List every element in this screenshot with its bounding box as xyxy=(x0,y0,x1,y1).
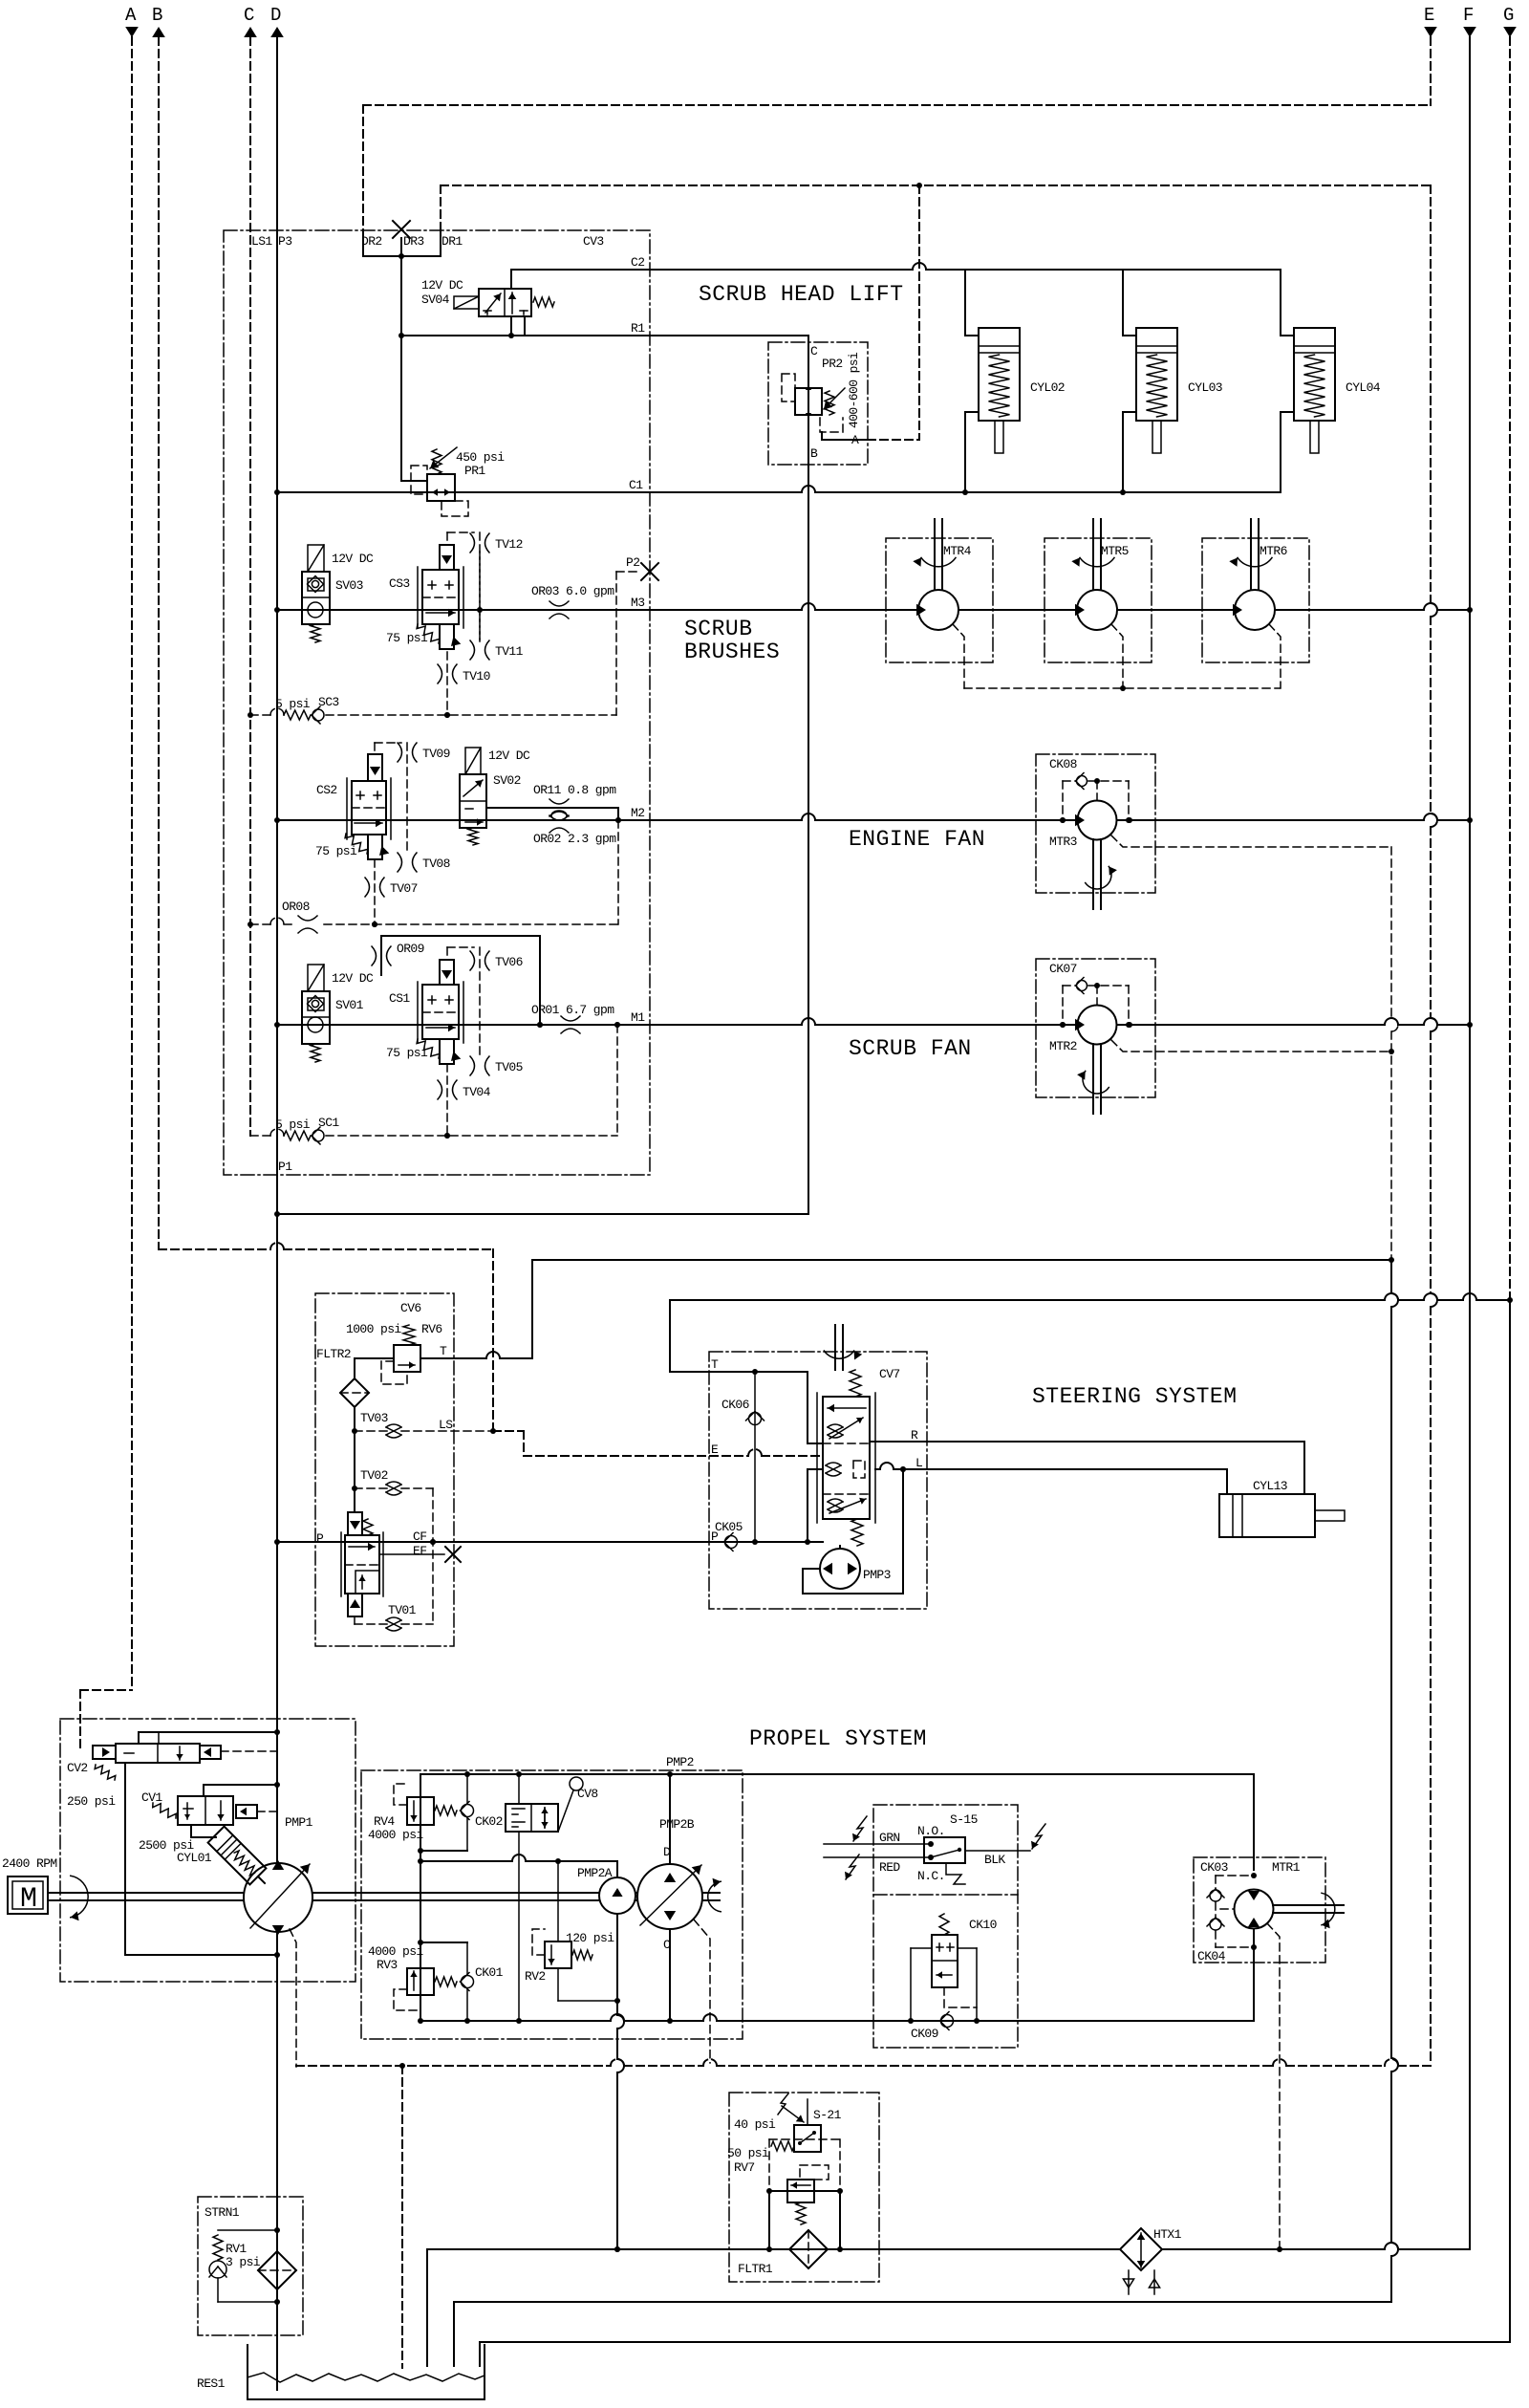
wire steering P riser xyxy=(808,1469,823,1542)
wire FLTR2 feed xyxy=(355,1358,394,1378)
check CK02 xyxy=(461,1774,503,1851)
pump PMP3 xyxy=(803,1466,906,1594)
svg-text:MTR6: MTR6 xyxy=(1260,544,1287,558)
svg-text:40 psi: 40 psi xyxy=(734,2117,776,2132)
label CK03 xyxy=(1200,1860,1228,1875)
svg-text:GRN: GRN xyxy=(879,1831,900,1845)
svg-text:TV12: TV12 xyxy=(495,537,523,552)
label 12V DC (SV04) xyxy=(421,278,463,293)
node G (trunk line G) xyxy=(1503,5,1517,2342)
label RED xyxy=(879,1860,900,1875)
label CV8 xyxy=(577,1787,598,1801)
label 400-600 psi xyxy=(847,352,861,428)
label RV7 xyxy=(734,2160,755,2175)
svg-text:CYL03: CYL03 xyxy=(1188,380,1222,395)
wire SV04 to R1 (right) xyxy=(524,316,526,336)
svg-text:C2: C2 xyxy=(631,255,644,270)
svg-text:OR02 2.3 gpm: OR02 2.3 gpm xyxy=(533,832,616,846)
svg-text:CV8: CV8 xyxy=(577,1787,598,1801)
svg-text:M: M xyxy=(20,1883,36,1916)
wire M3 bus xyxy=(277,596,1470,613)
svg-text:CV3: CV3 xyxy=(583,234,604,249)
label SCRUB FAN xyxy=(849,1036,972,1061)
svg-text:TV03: TV03 xyxy=(360,1411,388,1425)
motor MTR2 (scrub fan) xyxy=(1036,959,1391,1114)
label PMP3 xyxy=(863,1568,891,1582)
svg-text:DR2: DR2 xyxy=(361,234,382,249)
label CS2 xyxy=(316,783,337,797)
svg-text:CK05: CK05 xyxy=(715,1520,743,1534)
wire CS1 pilot dashed box xyxy=(447,947,480,1056)
cylinder CYL04 xyxy=(1281,270,1381,492)
svg-text:RED: RED xyxy=(879,1860,900,1875)
svg-text:OR03 6.0 gpm: OR03 6.0 gpm xyxy=(531,584,614,598)
wire SV04 to R1 (left) xyxy=(508,316,514,338)
valve RV4 xyxy=(394,1784,457,1825)
strainer STRN1 xyxy=(258,2251,296,2289)
test port TV06 xyxy=(470,951,523,970)
label PMP2 xyxy=(666,1755,694,1769)
svg-text:75 psi: 75 psi xyxy=(315,844,357,858)
svg-text:EF: EF xyxy=(413,1544,426,1558)
label 12V DC (SV02) xyxy=(488,748,530,763)
label CS1 xyxy=(389,991,410,1006)
label 12V DC (SV01) xyxy=(332,971,374,986)
orifice OR11 xyxy=(533,783,616,816)
svg-text:N.C.: N.C. xyxy=(917,1869,945,1883)
svg-text:OR09: OR09 xyxy=(397,942,424,956)
svg-text:SV03: SV03 xyxy=(335,578,363,593)
test valve TV01 needle xyxy=(355,1617,433,1631)
svg-text:M3: M3 xyxy=(631,596,644,610)
steering shaft xyxy=(824,1325,862,1370)
wire PMP2A suction xyxy=(614,1914,624,2252)
label B (PR2) xyxy=(810,446,818,461)
filter FLTR1 xyxy=(789,2230,828,2268)
solenoid SV03 xyxy=(302,545,330,642)
svg-text:12V DC: 12V DC xyxy=(421,278,463,293)
plug P2 (X) xyxy=(626,555,658,580)
svg-text:LS: LS xyxy=(439,1418,453,1432)
test port TV07 xyxy=(365,878,418,897)
wire S-21 pilot dashed xyxy=(769,2139,840,2191)
label LS1 xyxy=(251,234,272,249)
svg-text:FLTR1: FLTR1 xyxy=(738,2262,773,2276)
svg-text:2400 RPM: 2400 RPM xyxy=(2,1856,57,1871)
test port TV10 xyxy=(438,664,490,683)
svg-text:12V DC: 12V DC xyxy=(332,971,374,986)
svg-text:50 psi: 50 psi xyxy=(727,2146,769,2160)
label CK10 xyxy=(969,1918,997,1932)
box S-21/FLTR1 (dash-dot) xyxy=(729,2093,879,2282)
svg-text:SV02: SV02 xyxy=(493,773,521,788)
svg-text:DR3: DR3 xyxy=(403,234,424,249)
motor MTR4 xyxy=(886,519,993,688)
svg-text:400-600 psi: 400-600 psi xyxy=(847,352,861,428)
svg-text:MTR4: MTR4 xyxy=(943,544,972,558)
wire L line xyxy=(875,1456,1227,1494)
label SCRUB HEAD LIFT xyxy=(699,282,904,307)
svg-text:RV4: RV4 xyxy=(374,1814,395,1829)
label CV2 xyxy=(67,1761,88,1775)
svg-text:P2: P2 xyxy=(626,555,639,570)
wire M1 bus xyxy=(277,1010,1470,1028)
air arrows HTX1 xyxy=(1123,2270,1159,2294)
svg-text:12V DC: 12V DC xyxy=(332,552,374,566)
valve CV8 xyxy=(506,1777,583,1832)
label SV04 xyxy=(421,293,450,307)
steering unit CV7 xyxy=(817,1370,875,1546)
label PR1 xyxy=(464,464,485,478)
label CK04 xyxy=(1197,1949,1226,1963)
label STRN1 xyxy=(205,2205,240,2220)
label CV7 xyxy=(879,1367,900,1381)
svg-text:HTX1: HTX1 xyxy=(1153,2227,1182,2242)
wire MTR1 case drain xyxy=(1267,1923,1280,2249)
label PROPEL SYSTEM xyxy=(749,1726,927,1751)
svg-text:TV06: TV06 xyxy=(495,955,523,969)
label MTR1 xyxy=(1272,1860,1301,1875)
svg-text:E: E xyxy=(711,1443,719,1457)
wire M2 bus xyxy=(277,806,1470,823)
switch S-15 xyxy=(824,1816,1045,1884)
label E (steering) xyxy=(711,1443,719,1457)
check CK01 xyxy=(420,1942,504,2021)
svg-text:BRUSHES: BRUSHES xyxy=(684,640,780,664)
check CK06 xyxy=(721,1372,764,1542)
test port OR09 xyxy=(372,942,424,965)
label T (CV6) xyxy=(440,1344,447,1358)
box MTR1 (dash-dot) xyxy=(1194,1857,1325,1963)
svg-text:RV1: RV1 xyxy=(226,2242,247,2256)
switch S-21 xyxy=(778,2093,821,2152)
valve CK10 (pilot check) xyxy=(932,1914,958,1987)
label 4000 psi (RV4) xyxy=(368,1828,423,1842)
wire RV7 link xyxy=(766,2188,843,2194)
wire P line xyxy=(277,1539,823,1545)
box CV6 (dash-dot) xyxy=(315,1293,454,1646)
wire PR2 A port xyxy=(822,432,868,440)
label OR08 xyxy=(282,900,310,914)
svg-text:FLTR2: FLTR2 xyxy=(316,1347,351,1361)
label 50 psi xyxy=(727,2146,769,2160)
wire C2 bus xyxy=(511,255,1281,270)
wire CS1 feed box xyxy=(381,936,543,1028)
label SV03 xyxy=(335,578,363,593)
valve PR2 xyxy=(782,374,845,432)
wire steering T header xyxy=(532,1257,1394,1358)
label CV6 xyxy=(400,1301,421,1315)
label PMP1 xyxy=(285,1815,313,1830)
node E (trunk line E) xyxy=(1424,5,1437,2063)
svg-text:450 psi: 450 psi xyxy=(456,450,505,465)
svg-text:SV01: SV01 xyxy=(335,998,364,1012)
test valve TV02 xyxy=(360,1468,401,1495)
svg-text:R: R xyxy=(911,1428,918,1443)
svg-text:TV07: TV07 xyxy=(390,881,418,896)
label S-21 xyxy=(813,2108,842,2122)
label 12V DC (SV03) xyxy=(332,552,374,566)
svg-text:RV6: RV6 xyxy=(421,1322,442,1336)
svg-text:P1: P1 xyxy=(278,1160,292,1174)
wire CS3 pilot dashed box xyxy=(447,532,480,641)
wire CS2 pilot dashed box xyxy=(375,743,407,854)
box STRN1 (dash-dot) xyxy=(198,2197,303,2335)
svg-text:CYL13: CYL13 xyxy=(1253,1479,1287,1493)
wire CS1 drain to SC1 xyxy=(444,1064,450,1139)
svg-text:4000 psi: 4000 psi xyxy=(368,1828,423,1842)
svg-text:R1: R1 xyxy=(631,321,645,336)
wire SV02 branch OR11 xyxy=(486,808,621,823)
label C (PR2) xyxy=(810,344,818,358)
motor M (electric) xyxy=(2,1856,57,1916)
label T (steering) xyxy=(711,1357,719,1372)
svg-text:B: B xyxy=(152,5,162,26)
label PR2 xyxy=(822,357,843,371)
label DR1 xyxy=(441,234,463,249)
motor MTR3 (engine fan) xyxy=(1036,754,1391,909)
valve CS2 xyxy=(345,754,391,859)
svg-text:SC3: SC3 xyxy=(318,695,339,709)
svg-text:CYL02: CYL02 xyxy=(1030,380,1065,395)
label FLTR1 xyxy=(738,2262,773,2276)
svg-text:RV3: RV3 xyxy=(377,1958,398,1972)
valve CK10 body detail xyxy=(908,1943,980,2024)
svg-text:SCRUB HEAD LIFT: SCRUB HEAD LIFT xyxy=(699,282,904,307)
svg-text:N.O.: N.O. xyxy=(917,1824,945,1838)
svg-text:RV7: RV7 xyxy=(734,2160,755,2175)
wire CS3 drain to SC3 xyxy=(444,652,450,718)
svg-text:OR01 6.7 gpm: OR01 6.7 gpm xyxy=(531,1003,614,1017)
svg-text:PROPEL SYSTEM: PROPEL SYSTEM xyxy=(749,1726,927,1751)
box S-15/CK10 (dash-dot) xyxy=(873,1805,1018,2048)
svg-text:12V DC: 12V DC xyxy=(488,748,530,763)
svg-text:C1: C1 xyxy=(629,478,643,492)
valve CV1 xyxy=(153,1785,277,1825)
wire case drain bus (dashed) xyxy=(296,2059,1431,2069)
label RV2 xyxy=(525,1969,546,1984)
svg-text:E: E xyxy=(1424,5,1434,26)
check (inlet) TV01 top xyxy=(348,1512,362,1535)
label S-15 xyxy=(950,1812,978,1827)
orifice OR03 xyxy=(531,584,614,618)
wire propel return bus xyxy=(1018,2020,1254,2022)
wire CV2 return xyxy=(125,1763,277,1955)
svg-text:CYL04: CYL04 xyxy=(1346,380,1381,395)
svg-text:PR2: PR2 xyxy=(822,357,843,371)
label CS3 xyxy=(389,576,410,591)
label SV01 xyxy=(335,998,364,1012)
wire PMP2B bottom xyxy=(669,1929,671,2021)
wire fan drain riser xyxy=(1389,847,1398,1260)
svg-text:CYL01: CYL01 xyxy=(177,1851,212,1865)
label 75 psi xyxy=(386,631,428,645)
label ENGINE FAN xyxy=(849,827,985,852)
svg-text:TV10: TV10 xyxy=(463,669,490,683)
svg-text:TV09: TV09 xyxy=(422,747,450,761)
svg-text:C: C xyxy=(244,5,254,26)
wire CV8 risers xyxy=(518,1774,520,2021)
svg-text:75 psi: 75 psi xyxy=(386,631,428,645)
label GRN xyxy=(879,1831,900,1845)
label RV3 xyxy=(377,1958,398,1972)
svg-text:CS3: CS3 xyxy=(389,576,410,591)
label RV4 xyxy=(374,1814,395,1829)
relief RV1 detail xyxy=(209,2230,277,2302)
check CK05 xyxy=(715,1520,743,1551)
svg-text:CV2: CV2 xyxy=(67,1761,88,1775)
svg-text:RV2: RV2 xyxy=(525,1969,546,1984)
wire SV04 to C2 xyxy=(510,270,512,289)
wire DR manifold xyxy=(363,253,441,259)
svg-text:CK09: CK09 xyxy=(911,2027,938,2041)
svg-text:CV1: CV1 xyxy=(141,1790,162,1805)
wire RV4 bottom link xyxy=(420,1850,467,1852)
svg-text:OR08: OR08 xyxy=(282,900,310,914)
wire FLTR1 legs xyxy=(766,2191,843,2252)
svg-text:D: D xyxy=(270,5,281,26)
svg-text:T: T xyxy=(440,1344,447,1358)
solenoid SV01 xyxy=(302,965,330,1062)
svg-text:CK06: CK06 xyxy=(721,1398,749,1412)
node B (trunk line B) xyxy=(152,5,823,1456)
valve RV3 xyxy=(394,1968,457,2010)
label RV1 xyxy=(226,2242,247,2256)
box PR2 (dash-dot) xyxy=(768,342,868,465)
wire R line xyxy=(870,1428,1304,1494)
wire DR1 drain to E (dashed) xyxy=(441,183,1431,230)
svg-text:STEERING SYSTEM: STEERING SYSTEM xyxy=(1032,1384,1238,1409)
svg-text:MTR3: MTR3 xyxy=(1049,835,1077,849)
wire steering T line xyxy=(670,1369,823,1443)
label 5 psi SC3 xyxy=(275,695,339,711)
label STEERING SYSTEM xyxy=(1032,1384,1238,1409)
svg-text:TV02: TV02 xyxy=(360,1468,388,1483)
cylinder CYL13 xyxy=(1219,1479,1345,1537)
label SV02 xyxy=(493,773,521,788)
label 450 psi xyxy=(456,450,505,465)
label P3 xyxy=(278,234,291,249)
svg-text:PMP2: PMP2 xyxy=(666,1755,694,1769)
node D (trunk line D / P3, solid) xyxy=(270,5,284,1958)
wire SC1 line (5 psi check) xyxy=(250,1022,620,1144)
svg-text:MTR5: MTR5 xyxy=(1101,544,1129,558)
valve CV2 xyxy=(93,1732,277,1780)
label 1000 psi xyxy=(346,1322,401,1336)
svg-text:SV04: SV04 xyxy=(421,293,450,307)
cylinder CYL02 xyxy=(965,270,1065,492)
wire PMP2 mid bus xyxy=(420,1855,617,1864)
wire CV1 pilot to D xyxy=(204,1784,277,1786)
cylinder CYL03 xyxy=(1123,270,1222,492)
svg-text:3 psi: 3 psi xyxy=(226,2255,261,2269)
wire cooler return line xyxy=(427,2243,1470,2366)
orifice OR01 xyxy=(531,1003,614,1033)
test port TV12 xyxy=(470,533,523,553)
svg-text:S-15: S-15 xyxy=(950,1812,978,1827)
wire R1 riser to PR2/B xyxy=(808,336,809,1214)
svg-text:TV11: TV11 xyxy=(495,644,524,659)
node A (trunk line A, top arrow) xyxy=(80,5,139,1750)
box PMP1 (dash-dot) xyxy=(60,1719,355,1982)
cylinder CYL01 (stroker) xyxy=(191,1825,266,1884)
wire OR08 line xyxy=(250,820,618,933)
svg-text:CV7: CV7 xyxy=(879,1367,900,1381)
label RV6 xyxy=(421,1322,442,1336)
svg-text:PMP3: PMP3 xyxy=(863,1568,891,1582)
wire PMP2 top bus xyxy=(420,1771,1254,1777)
svg-text:F: F xyxy=(1463,5,1474,26)
svg-text:PMP2A: PMP2A xyxy=(577,1866,613,1880)
svg-text:P: P xyxy=(316,1531,324,1546)
svg-text:MTR2: MTR2 xyxy=(1049,1039,1077,1053)
svg-text:CK08: CK08 xyxy=(1049,757,1077,771)
svg-text:CV6: CV6 xyxy=(400,1301,421,1315)
label CYL01 xyxy=(177,1851,212,1865)
test port TV08 xyxy=(398,853,450,872)
wire PMP2B case drain xyxy=(694,1920,710,2063)
svg-text:CS1: CS1 xyxy=(389,991,410,1006)
wire PMP1 suction xyxy=(274,1932,280,2390)
wire drain to tank xyxy=(401,2066,403,2368)
label CV3 xyxy=(583,234,604,249)
test port TV09 xyxy=(398,743,450,762)
label DR3 xyxy=(403,234,424,249)
wire TV02 dashed xyxy=(355,1488,436,1624)
wire tank return to G xyxy=(670,1293,1510,1372)
label DR2 xyxy=(361,234,382,249)
solenoid SV02 xyxy=(460,748,486,845)
svg-text:TV04: TV04 xyxy=(463,1085,491,1099)
svg-text:STRN1: STRN1 xyxy=(205,2205,240,2220)
label 5 psi SC1 xyxy=(275,1116,339,1132)
label P1 xyxy=(278,1160,292,1174)
svg-text:D: D xyxy=(663,1845,671,1859)
svg-text:SCRUB: SCRUB xyxy=(684,617,753,641)
svg-text:LS1: LS1 xyxy=(251,234,272,249)
svg-text:CK04: CK04 xyxy=(1197,1949,1226,1963)
svg-text:OR11 0.8 gpm: OR11 0.8 gpm xyxy=(533,783,616,797)
test port TV04 xyxy=(438,1080,491,1099)
label 3 psi xyxy=(226,2255,261,2269)
svg-text:TV01: TV01 xyxy=(388,1603,417,1617)
svg-text:CK03: CK03 xyxy=(1200,1860,1228,1875)
valve PR1 xyxy=(411,447,468,516)
label 250 psi xyxy=(67,1794,116,1809)
wire RV6 T line xyxy=(420,1352,532,1358)
svg-text:PMP1: PMP1 xyxy=(285,1815,313,1830)
svg-text:G: G xyxy=(1503,5,1514,26)
valve CS1 xyxy=(417,960,463,1064)
svg-text:P3: P3 xyxy=(278,234,291,249)
wire EF stub xyxy=(379,1547,461,1562)
svg-text:BLK: BLK xyxy=(984,1853,1005,1867)
check CK03 (makeup) xyxy=(1207,1876,1254,1919)
svg-text:DR1: DR1 xyxy=(441,234,463,249)
valve RV6 xyxy=(381,1325,420,1384)
pump PMP2A (charge) xyxy=(577,1861,635,1914)
wire CV2 pilot to D xyxy=(139,1732,277,1744)
label EF xyxy=(413,1544,426,1558)
svg-text:PMP2B: PMP2B xyxy=(659,1817,695,1832)
node C (trunk line C / LS1) xyxy=(244,5,257,1136)
label 75 psi (CS2) xyxy=(315,844,357,858)
orifice OR02 xyxy=(533,811,616,846)
pump PMP1 (variable) xyxy=(244,1860,312,1935)
pump PMP2B (variable) xyxy=(637,1774,702,1952)
motor MTR6 xyxy=(1202,519,1309,688)
valve RV2 xyxy=(532,1861,620,2004)
